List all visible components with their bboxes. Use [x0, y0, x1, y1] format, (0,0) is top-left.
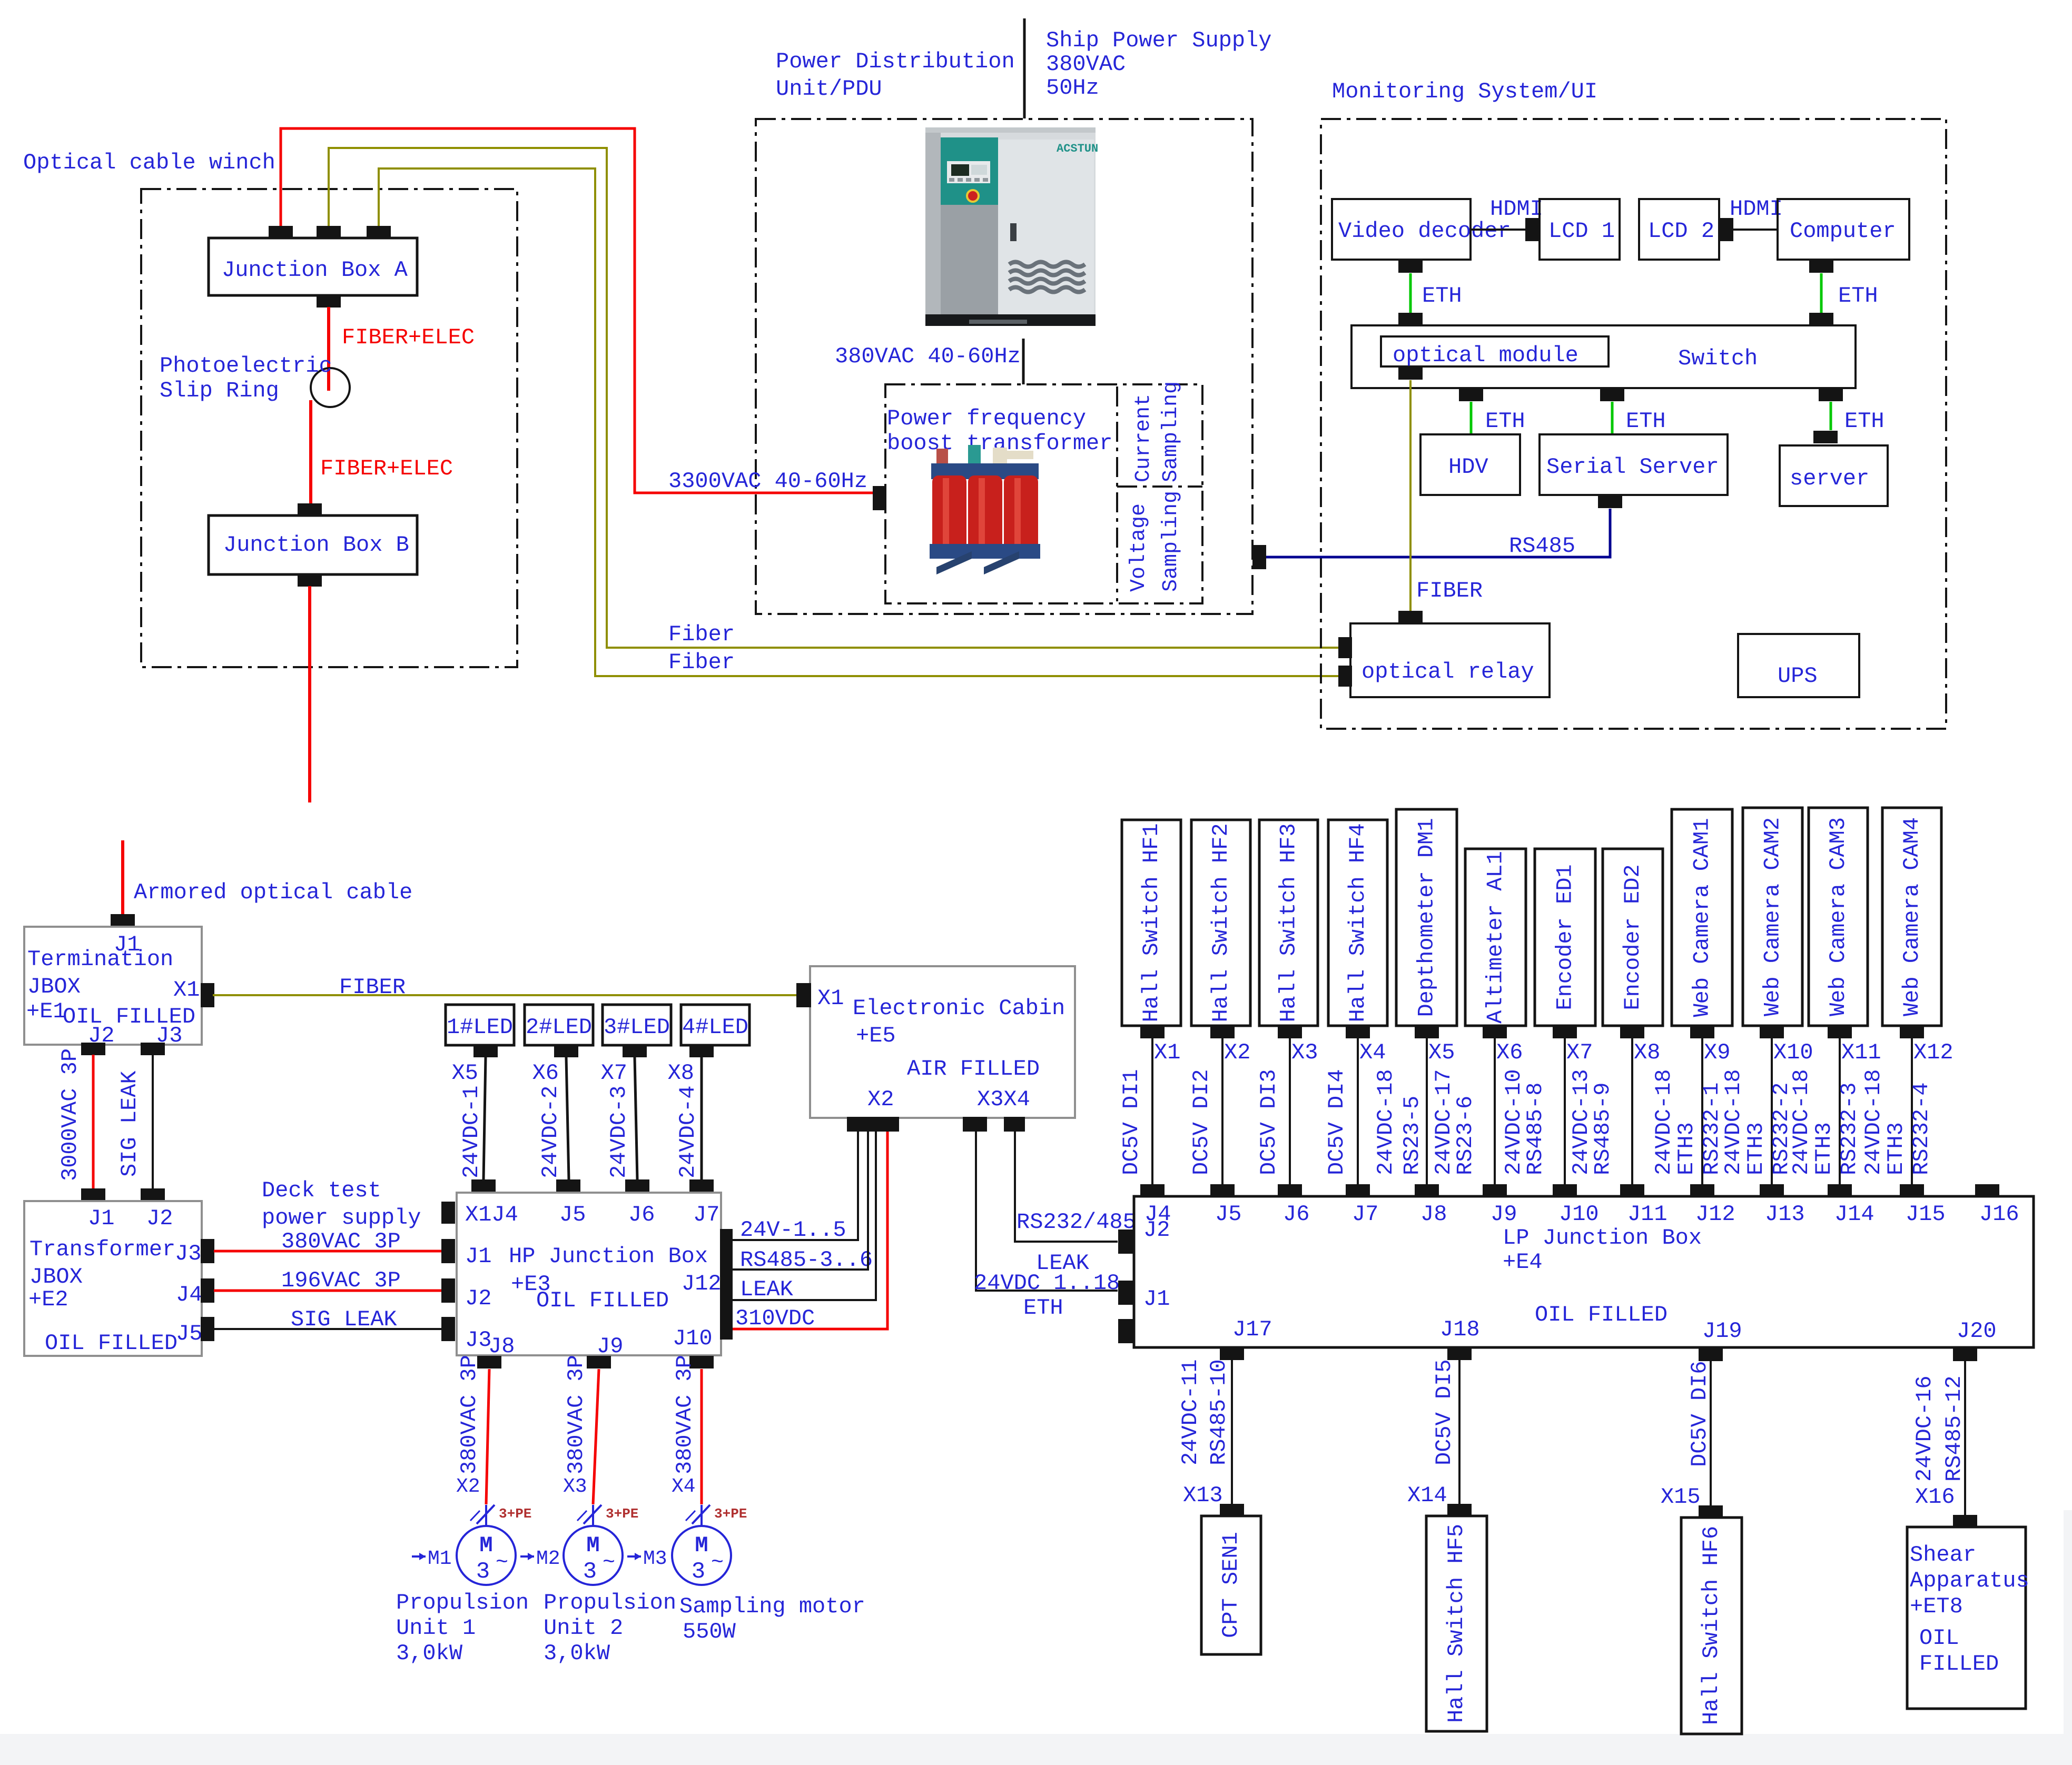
svg-text:optical module: optical module	[1393, 343, 1578, 368]
svg-text:Fiber: Fiber	[668, 622, 735, 647]
svg-text:J19: J19	[1702, 1318, 1742, 1344]
svg-text:LP Junction Box: LP Junction Box	[1503, 1225, 1702, 1251]
CPT SEN1 top tab	[1220, 1504, 1244, 1516]
sensor box Encoder ED2	[1603, 849, 1663, 1026]
wire: red armored optical cable into termination jbox	[121, 840, 124, 916]
svg-text:X2: X2	[867, 1087, 894, 1112]
wire: SIG LEAK to HP junction box	[214, 1328, 441, 1330]
switch bottom tab 3	[1819, 389, 1843, 401]
svg-text:J8: J8	[488, 1334, 515, 1359]
svg-text:Web Camera CAM1: Web Camera CAM1	[1690, 818, 1715, 1017]
boost transformer image	[930, 445, 1040, 574]
wire: RS485-3..6 HP to cabin X2	[733, 1132, 868, 1270]
junction box A	[209, 238, 417, 295]
LCD 1 left tab	[1525, 218, 1540, 241]
sensor CAM1 bottom tab	[1690, 1026, 1714, 1038]
svg-text:4#LED: 4#LED	[682, 1015, 748, 1040]
transformer jbox J3 right tab	[201, 1239, 214, 1263]
UPS box	[1738, 634, 1859, 697]
wire: red 196VAC 3P to HP junction box	[214, 1290, 441, 1292]
svg-text:Hall Switch HF5: Hall Switch HF5	[1444, 1524, 1469, 1723]
termination jbox J1 top tab	[111, 914, 135, 927]
svg-text:Apparatus: Apparatus	[1910, 1568, 2029, 1593]
wire: red FIBER+ELEC from Junction Box A to slip ring	[327, 307, 330, 391]
HP junction box J6 top tab	[625, 1179, 649, 1192]
svg-text:Shear: Shear	[1910, 1542, 1976, 1568]
shear apparatus +ET8 box	[1907, 1527, 2026, 1709]
video decoder bottom tab	[1398, 260, 1423, 273]
svg-text:ACSTUN: ACSTUN	[1057, 142, 1098, 155]
svg-text:X1: X1	[817, 986, 844, 1011]
LP junction box +E4	[1134, 1196, 2034, 1347]
LP left tab spare	[1118, 1319, 1134, 1343]
svg-text:RS232-4: RS232-4	[1909, 1083, 1934, 1175]
LP bottom tab J19	[1699, 1348, 1723, 1361]
svg-text:~: ~	[603, 1551, 615, 1575]
wire: SIG LEAK termination to transformer jbox	[152, 1055, 154, 1188]
PDU cabinet image	[925, 127, 1098, 326]
HP bottom tab J9	[587, 1356, 611, 1369]
svg-text:Photoelectric: Photoelectric	[160, 353, 332, 379]
HDV box	[1420, 434, 1520, 495]
sensor box Encoder ED1	[1535, 849, 1595, 1026]
termination X1 right tab	[201, 983, 214, 1007]
wire: 24VDC-1 LED line	[484, 1057, 486, 1179]
svg-text:X4: X4	[672, 1475, 696, 1498]
wire: 24VDC-3 LED line	[635, 1057, 637, 1179]
wire: olive FIBER from optical module to optical relay	[1409, 380, 1412, 613]
1#LED box	[446, 1005, 514, 1045]
svg-text:J12: J12	[682, 1271, 722, 1296]
svg-text:UPS: UPS	[1778, 663, 1818, 689]
svg-text:Sampling: Sampling	[1159, 491, 1183, 592]
wire: green ETH switch to server	[1830, 402, 1832, 430]
svg-text:Encoder ED2: Encoder ED2	[1620, 864, 1645, 1010]
svg-text:X8: X8	[668, 1060, 694, 1086]
svg-text:HDV: HDV	[1448, 454, 1488, 480]
svg-text:DC5V DI5: DC5V DI5	[1432, 1359, 1457, 1465]
cabin bottom tab X4	[1004, 1117, 1025, 1132]
svg-text:+E1: +E1	[26, 999, 66, 1024]
svg-text:J6: J6	[1283, 1202, 1309, 1227]
svg-text:X8: X8	[1634, 1040, 1660, 1065]
svg-text:Altimeter AL1: Altimeter AL1	[1483, 851, 1508, 1024]
svg-text:Termination: Termination	[27, 947, 173, 972]
LCD 1 box	[1540, 199, 1620, 260]
wire: LEAK HP to cabin X2	[733, 1132, 876, 1300]
svg-text:Computer: Computer	[1790, 219, 1896, 244]
wire: X4 RS232/485 to LP J2	[1015, 1132, 1118, 1242]
HP left tab X1	[441, 1202, 455, 1224]
svg-text:J12: J12	[1695, 1202, 1735, 1227]
svg-text:+E5: +E5	[856, 1023, 896, 1048]
svg-text:RS232-3: RS232-3	[1837, 1083, 1862, 1175]
wire: sensor CAM4 to LP J15	[1911, 1038, 1913, 1186]
transformer jbox J1 top tab	[81, 1188, 105, 1201]
svg-text:HP Junction Box: HP Junction Box	[509, 1244, 708, 1269]
svg-text:Hall Switch HF6: Hall Switch HF6	[1699, 1526, 1724, 1725]
switch top tab left	[1398, 313, 1423, 325]
serial server box	[1540, 434, 1728, 495]
power distribution unit enclosure (dash-dot box)	[756, 119, 1252, 614]
svg-text:Electronic Cabin: Electronic Cabin	[853, 996, 1065, 1021]
svg-text:Hall Switch HF4: Hall Switch HF4	[1345, 823, 1370, 1022]
wire: sensor AL1 to LP J9	[1494, 1038, 1496, 1186]
svg-text:Unit 1: Unit 1	[396, 1615, 476, 1641]
svg-text:OIL FILLED: OIL FILLED	[1535, 1302, 1668, 1327]
wire: LP J18 to Hall Switch HF5	[1458, 1360, 1461, 1504]
HP bottom tab J10	[689, 1356, 714, 1369]
svg-text:550W: 550W	[683, 1619, 736, 1644]
svg-text:24VDC-18: 24VDC-18	[1861, 1069, 1886, 1175]
wire: green ETH switch to HDV	[1470, 402, 1473, 434]
wire: 24VDC-2 LED line	[566, 1057, 569, 1179]
sensor box Web Camera CAM3	[1809, 808, 1868, 1026]
switch box	[1351, 325, 1856, 388]
PDU right output tab	[1252, 545, 1266, 569]
serial server bottom tab	[1598, 495, 1622, 508]
svg-text:X2: X2	[1224, 1040, 1250, 1065]
LP left tab J2	[1118, 1229, 1134, 1254]
svg-text:FIBER: FIBER	[339, 975, 406, 1000]
svg-text:Web Camera CAM2: Web Camera CAM2	[1760, 817, 1785, 1016]
svg-text:X12: X12	[1913, 1040, 1953, 1065]
svg-text:J16: J16	[1979, 1202, 2019, 1227]
svg-text:X2: X2	[456, 1475, 480, 1498]
HP junction box J4 top tab	[471, 1179, 496, 1192]
svg-text:X10: X10	[1773, 1040, 1813, 1065]
wire: green ETH video decoder to switch	[1409, 273, 1412, 313]
4#LED box	[681, 1005, 749, 1045]
label: arrow -M3	[627, 1555, 641, 1558]
svg-text:1#LED: 1#LED	[447, 1015, 513, 1040]
svg-text:Slip Ring: Slip Ring	[160, 378, 279, 403]
svg-text:Fiber: Fiber	[668, 650, 735, 675]
svg-text:X9: X9	[1704, 1040, 1730, 1065]
svg-text:DC5V DI1: DC5V DI1	[1119, 1069, 1144, 1175]
svg-text:LCD 1: LCD 1	[1548, 219, 1615, 244]
svg-text:FIBER: FIBER	[1416, 578, 1483, 603]
svg-text:X3: X3	[1291, 1040, 1318, 1065]
optical relay left tab 1	[1338, 637, 1352, 658]
transformer jbox J4 right tab	[201, 1278, 214, 1303]
svg-text:Optical cable winch: Optical cable winch	[23, 150, 275, 175]
svg-text:Power Distribution: Power Distribution	[776, 49, 1015, 74]
junction box B	[209, 515, 417, 574]
svg-text:50Hz: 50Hz	[1046, 75, 1099, 101]
svg-text:M: M	[479, 1533, 492, 1558]
svg-text:FILLED: FILLED	[1919, 1651, 1999, 1677]
svg-text:J7: J7	[693, 1202, 719, 1227]
sensor CAM4 bottom tab	[1900, 1026, 1924, 1038]
sensor box Hall Switch HF3	[1259, 820, 1318, 1026]
svg-text:X3: X3	[563, 1475, 587, 1498]
svg-text:ETH: ETH	[1844, 409, 1884, 434]
pin tab 1 on Junction Box A	[269, 226, 293, 239]
sensor HF1 bottom tab	[1140, 1026, 1165, 1038]
svg-text:ETH: ETH	[1626, 409, 1666, 434]
svg-text:SIG LEAK: SIG LEAK	[117, 1070, 142, 1177]
optical relay box	[1350, 623, 1550, 697]
LCD 2 right tab	[1719, 218, 1733, 241]
wire: green ETH computer to switch	[1820, 273, 1823, 313]
svg-text:+ET8: +ET8	[1910, 1594, 1963, 1619]
svg-text:X5: X5	[452, 1060, 478, 1086]
svg-text:Current: Current	[1132, 394, 1156, 482]
sampling partition: vertical divider	[1116, 386, 1118, 601]
svg-text:RS232/485: RS232/485	[1017, 1209, 1136, 1235]
svg-text:RS485-10: RS485-10	[1206, 1359, 1231, 1465]
svg-text:3+PE: 3+PE	[606, 1506, 638, 1522]
svg-text:J1: J1	[1143, 1286, 1170, 1312]
wire: 380VAC 40-60Hz line from cabinet to transformer box	[1022, 339, 1025, 384]
shear apparatus top tab	[1953, 1515, 1977, 1528]
svg-text:Armored optical cable: Armored optical cable	[134, 880, 412, 905]
svg-text:Switch: Switch	[1678, 346, 1758, 371]
svg-text:ETH: ETH	[1422, 283, 1462, 309]
wire: sensor HF3 to LP J6	[1289, 1038, 1291, 1186]
svg-text:optical relay: optical relay	[1361, 659, 1534, 685]
svg-text:X6: X6	[1496, 1040, 1523, 1065]
svg-text:LEAK: LEAK	[740, 1277, 794, 1302]
svg-text:24VDC-4: 24VDC-4	[675, 1086, 700, 1178]
wire: sensor CAM2 to LP J13	[1771, 1038, 1773, 1186]
wire: X3 bundle to LP J1 (24VDC/LEAK/ETH)	[976, 1132, 1118, 1291]
svg-text:3+PE: 3+PE	[499, 1506, 531, 1522]
svg-text:Hall Switch HF3: Hall Switch HF3	[1276, 823, 1301, 1022]
sensor box Altimeter AL1	[1465, 849, 1526, 1026]
svg-text:Unit 2: Unit 2	[544, 1615, 623, 1641]
LCD 2 box	[1639, 199, 1719, 260]
pin tab 2 on Junction Box A	[317, 226, 341, 239]
svg-text:380VAC: 380VAC	[1046, 52, 1126, 77]
switch bottom tab 1	[1459, 389, 1483, 401]
svg-text:RS23-5: RS23-5	[1399, 1096, 1425, 1175]
svg-text:310VDC: 310VDC	[735, 1306, 815, 1331]
svg-text:Voltage: Voltage	[1127, 503, 1151, 592]
svg-text:X16: X16	[1915, 1484, 1955, 1510]
svg-text:Propulsion: Propulsion	[544, 1590, 676, 1615]
electronic cabin +E5	[810, 966, 1075, 1118]
sensor box Depthometer DM1	[1396, 809, 1457, 1026]
svg-text:power supply: power supply	[262, 1205, 421, 1231]
svg-text:M3: M3	[643, 1548, 667, 1570]
sensor ED2 bottom tab	[1620, 1026, 1644, 1038]
svg-text:Sampling: Sampling	[1159, 381, 1183, 482]
3#LED box	[603, 1005, 671, 1045]
svg-text:M: M	[586, 1533, 599, 1558]
2#LED bottom tab	[554, 1045, 578, 1057]
wire: sensor HF1 to LP J4	[1151, 1038, 1153, 1186]
svg-text:3000VAC 3P: 3000VAC 3P	[57, 1048, 83, 1181]
svg-text:Junction Box A: Junction Box A	[222, 257, 408, 283]
svg-text:Power frequency: Power frequency	[887, 406, 1086, 431]
svg-text:24VDC-16: 24VDC-16	[1912, 1375, 1937, 1482]
sensor box Hall Switch HF1	[1122, 820, 1181, 1026]
HP junction box J5 top tab	[556, 1179, 580, 1192]
svg-text:X1: X1	[1154, 1040, 1180, 1065]
optical module bottom tab	[1398, 367, 1423, 380]
wire: sensor ED1 to LP J10	[1564, 1038, 1566, 1186]
HP junction box +E3	[457, 1193, 721, 1355]
transformer jbox +E2	[24, 1201, 202, 1356]
HP left tab J1	[441, 1239, 455, 1263]
Hall Switch HF6 box	[1681, 1518, 1742, 1734]
svg-text:RS485: RS485	[1509, 533, 1575, 559]
svg-text:Web Camera CAM4: Web Camera CAM4	[1899, 817, 1925, 1016]
svg-text:HDMI: HDMI	[1730, 196, 1783, 222]
svg-text:RS23-6: RS23-6	[1453, 1096, 1478, 1175]
CPT SEN1 box	[1201, 1516, 1261, 1654]
sensor ED1 bottom tab	[1553, 1026, 1577, 1038]
sensor HF4 bottom tab	[1346, 1026, 1370, 1038]
svg-text:Hall Switch HF1: Hall Switch HF1	[1139, 823, 1164, 1022]
photoelectric slip ring circle	[311, 368, 350, 407]
svg-text:OIL FILLED: OIL FILLED	[536, 1288, 669, 1313]
svg-text:3: 3	[476, 1559, 490, 1585]
svg-text:24VDC-18: 24VDC-18	[1651, 1069, 1676, 1175]
HF6 top tab	[1699, 1505, 1723, 1518]
svg-text:X11: X11	[1841, 1040, 1881, 1065]
sensor CAM3 bottom tab	[1828, 1026, 1852, 1038]
LP left tab J1	[1118, 1281, 1134, 1305]
svg-text:J9: J9	[597, 1334, 623, 1359]
svg-text:J17: J17	[1232, 1317, 1272, 1342]
termination J3 bottom tab	[141, 1043, 165, 1055]
termination jbox +E1	[24, 927, 202, 1045]
1#LED bottom tab	[473, 1045, 498, 1057]
wire: red FIBER+ELEC from slip ring to Junction Box B	[309, 400, 312, 504]
svg-text:24VDC-18: 24VDC-18	[1789, 1069, 1814, 1175]
wire: olive FIBER from termination to electronic cabin	[213, 994, 796, 996]
svg-text:380VAC 3P: 380VAC 3P	[457, 1355, 482, 1474]
svg-text:J18: J18	[1440, 1317, 1480, 1342]
breaker slash motor 2	[584, 1505, 601, 1524]
svg-text:J5: J5	[559, 1202, 586, 1227]
svg-text:X3X4: X3X4	[977, 1087, 1030, 1112]
wire: red 310VDC HP to cabin X2	[733, 1132, 887, 1329]
wire: sensor CAM3 to LP J14	[1839, 1038, 1841, 1186]
pin tab top of Junction Box B	[298, 503, 322, 516]
svg-text:X14: X14	[1407, 1483, 1447, 1508]
motor M2 circle	[592, 1505, 594, 1526]
pin tab 3 on Junction Box A	[367, 226, 391, 239]
pin tab bottom of Junction Box A	[317, 295, 341, 308]
cabin left tab X1	[796, 983, 811, 1007]
optical relay left tab 2	[1338, 666, 1352, 687]
svg-text:380VAC 3P: 380VAC 3P	[672, 1355, 697, 1474]
svg-text:server: server	[1790, 466, 1869, 491]
cabin bottom tab X2	[847, 1117, 899, 1132]
svg-text:X15: X15	[1661, 1484, 1701, 1510]
optical relay top tab	[1398, 611, 1423, 623]
svg-text:CPT SEN1: CPT SEN1	[1218, 1532, 1244, 1638]
svg-text:24VDC-18: 24VDC-18	[1721, 1069, 1746, 1175]
svg-text:ETH: ETH	[1485, 409, 1525, 434]
svg-text:M: M	[695, 1533, 708, 1558]
termination J2 bottom tab	[81, 1043, 105, 1055]
svg-text:ETH: ETH	[1838, 283, 1878, 309]
svg-text:OIL: OIL	[1919, 1625, 1959, 1651]
power frequency boost transformer enclosure (dash-dot box)	[885, 384, 1202, 603]
svg-text:24VDC-18: 24VDC-18	[1373, 1069, 1398, 1175]
svg-text:Ship Power Supply: Ship Power Supply	[1046, 28, 1271, 53]
svg-text:3#LED: 3#LED	[604, 1015, 670, 1040]
svg-text:J6: J6	[628, 1202, 655, 1227]
svg-text:ETH3: ETH3	[1883, 1122, 1909, 1175]
sampling partition: horizontal divider	[1117, 485, 1202, 488]
sensor box Hall Switch HF4	[1328, 820, 1387, 1026]
switch top tab right	[1809, 313, 1833, 325]
svg-text:+E2: +E2	[28, 1287, 68, 1312]
2#LED box	[525, 1005, 593, 1045]
HF5 top tab	[1447, 1504, 1472, 1516]
svg-text:HDMI: HDMI	[1490, 196, 1543, 222]
svg-text:3,0kW: 3,0kW	[396, 1641, 463, 1666]
svg-text:3+PE: 3+PE	[714, 1506, 747, 1522]
cabin bottom tab X3	[963, 1117, 987, 1132]
svg-text:24V-1..5: 24V-1..5	[740, 1217, 846, 1243]
svg-text:Junction Box B: Junction Box B	[223, 532, 409, 558]
video decoder box	[1332, 199, 1471, 260]
svg-text:J10: J10	[1559, 1202, 1599, 1227]
svg-text:24VDC-11: 24VDC-11	[1178, 1359, 1203, 1465]
HP left tab J3	[441, 1317, 455, 1341]
svg-text:24VDC 1..18: 24VDC 1..18	[974, 1271, 1120, 1296]
computer bottom tab	[1809, 260, 1833, 273]
wire: red 3000VAC 3P termination to transformer jbox	[92, 1055, 95, 1188]
wire: HDMI LCD 2 to computer	[1733, 229, 1778, 231]
monitoring system enclosure (dash-dot box)	[1321, 119, 1946, 729]
svg-text:M2: M2	[536, 1548, 560, 1570]
svg-text:3300VAC 40-60Hz: 3300VAC 40-60Hz	[668, 469, 867, 494]
sensor AL1 bottom tab	[1483, 1026, 1507, 1038]
server box	[1780, 445, 1888, 506]
LP junction box top tab J16	[1975, 1184, 1999, 1197]
svg-text:OIL FILLED: OIL FILLED	[45, 1331, 177, 1356]
svg-text:AIR FILLED: AIR FILLED	[907, 1056, 1040, 1082]
HP junction box J7 top tab	[689, 1179, 714, 1192]
LP bottom tab J17	[1220, 1347, 1244, 1360]
wire: LP J20 to shear apparatus	[1964, 1361, 1966, 1515]
svg-text:JBOX: JBOX	[29, 1264, 83, 1290]
transformer jbox J5 right tab	[201, 1317, 214, 1341]
switch bottom tab 2	[1600, 389, 1624, 401]
svg-text:Unit/PDU: Unit/PDU	[776, 76, 882, 102]
LP bottom tab J18	[1447, 1347, 1472, 1360]
sensor box Hall Switch HF2	[1191, 820, 1250, 1026]
svg-text:24VDC-2: 24VDC-2	[538, 1086, 563, 1178]
svg-text:M1: M1	[428, 1548, 452, 1570]
motor M1 circle	[485, 1505, 487, 1526]
svg-text:24VDC-3: 24VDC-3	[606, 1086, 632, 1178]
computer box	[1778, 199, 1909, 260]
wire: red 380VAC 3P to motor 2	[593, 1369, 599, 1504]
svg-text:2#LED: 2#LED	[526, 1015, 592, 1040]
label: arrow -M1	[412, 1555, 426, 1558]
svg-text:J2: J2	[146, 1206, 173, 1231]
svg-text:Serial Server: Serial Server	[1546, 454, 1719, 480]
wire: 24VDC-4 LED line	[700, 1057, 703, 1179]
wire: green ETH switch to serial server	[1611, 402, 1614, 434]
svg-text:DC5V DI4: DC5V DI4	[1324, 1069, 1349, 1175]
svg-text:X7: X7	[1566, 1040, 1593, 1065]
svg-text:DC5V DI3: DC5V DI3	[1256, 1069, 1281, 1175]
wire: olive fiber 1 from Junction Box A to optical relay	[329, 148, 1340, 648]
sensor HF2 bottom tab	[1210, 1026, 1235, 1038]
svg-text:380VAC 40-60Hz: 380VAC 40-60Hz	[835, 344, 1021, 369]
4#LED bottom tab	[689, 1045, 714, 1057]
